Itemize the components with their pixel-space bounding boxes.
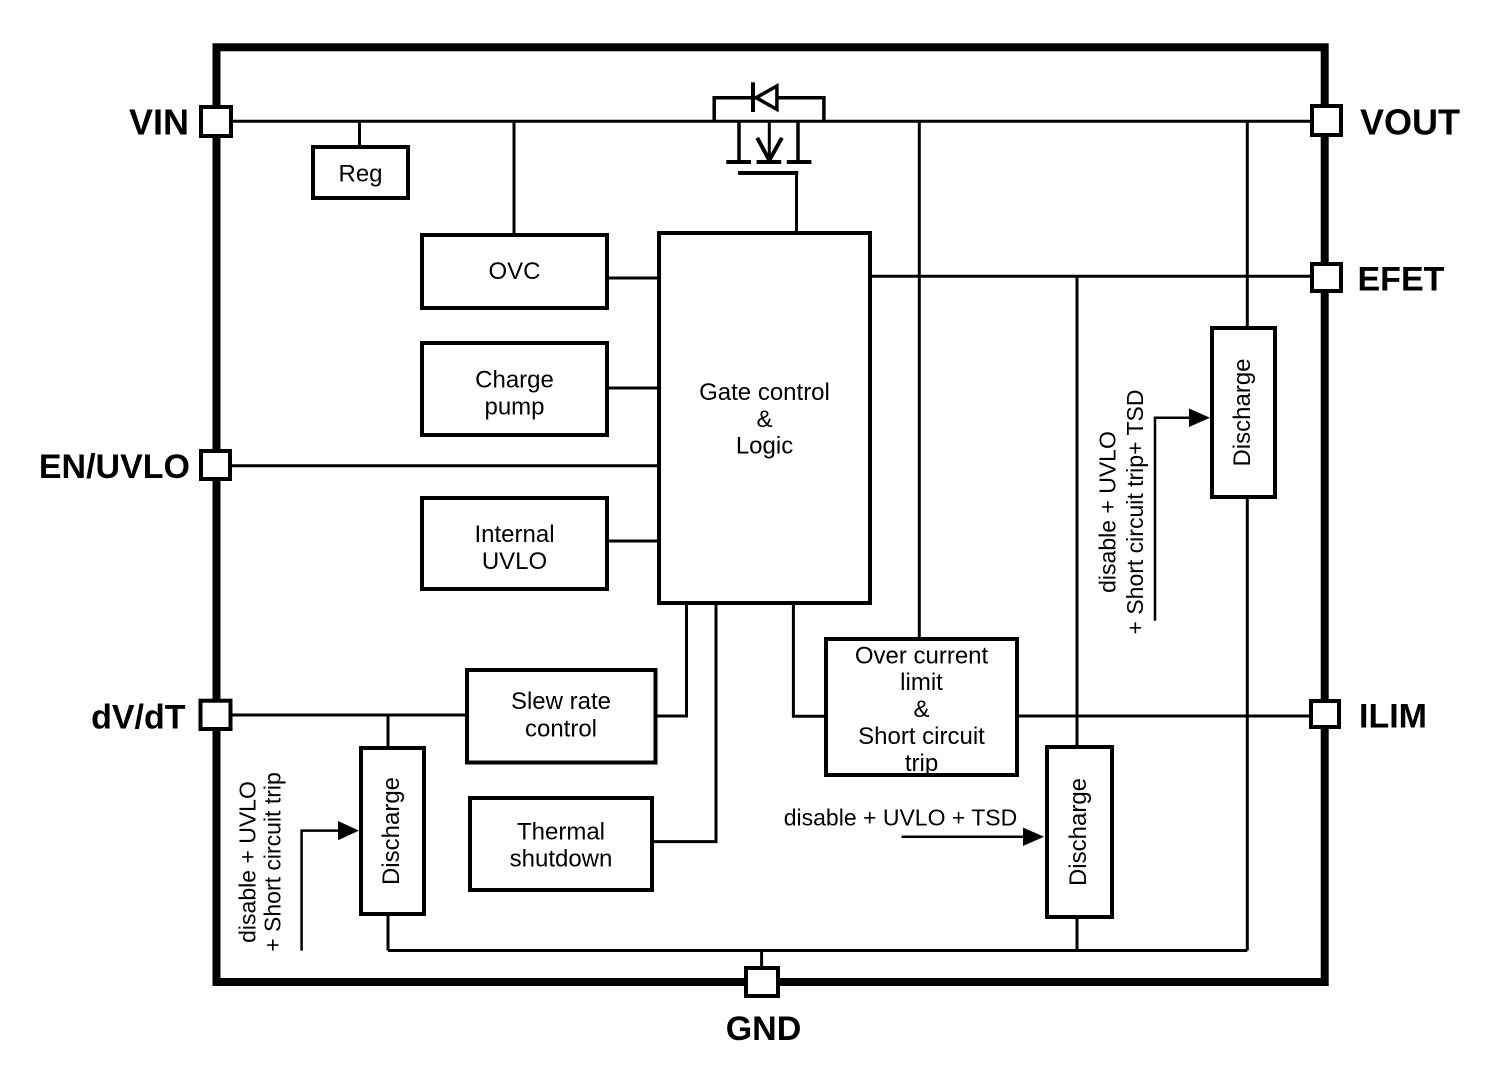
wire dV/dT junction to Discharge dVdT (387, 715, 390, 748)
arrow into Discharge ILIM (902, 828, 1044, 847)
svg-text:VOUT: VOUT (1360, 102, 1460, 143)
transistor Q1 contact bar body (757, 160, 782, 164)
svg-text:shutdown: shutdown (510, 846, 613, 873)
svg-text:&: & (756, 406, 772, 433)
svg-text:EFET: EFET (1358, 261, 1445, 299)
svg-text:Reg: Reg (338, 161, 382, 188)
wire EN/UVLO to Gate control (230, 464, 661, 467)
wire bottom rail (388, 949, 1247, 952)
transistor Q1 body arrow (768, 121, 771, 158)
wire OVC to Gate control (607, 277, 661, 280)
transistor Q1 pass FET body diode bracket (714, 98, 824, 122)
svg-text:disable + UVLO: disable + UVLO (1095, 431, 1121, 593)
svg-text:control: control (525, 716, 597, 743)
block Discharge ILIM (1047, 747, 1112, 917)
wire Charge pump to Gate control (607, 387, 661, 390)
svg-text:Short circuit: Short circuit (858, 723, 985, 750)
svg-text:Logic: Logic (736, 433, 793, 460)
wire Gate control to Over current (793, 603, 826, 716)
pin dV/dT (201, 701, 231, 729)
svg-text:disable + UVLO + TSD: disable + UVLO + TSD (784, 805, 1018, 831)
svg-text:VIN: VIN (129, 102, 189, 143)
svg-text:ILIM: ILIM (1359, 698, 1427, 736)
wire bottom rail to GND pin (760, 951, 763, 969)
wire Internal UVLO to Gate control (607, 540, 661, 543)
transistor Q1 contact bar drain (726, 160, 751, 164)
pin GND (746, 968, 778, 996)
pin EFET (1312, 264, 1341, 291)
svg-text:Slew rate: Slew rate (511, 688, 611, 715)
wire Discharge dVdT to bottom rail (387, 915, 390, 951)
IC boundary box (217, 47, 1325, 982)
block Charge pump (422, 343, 607, 435)
block OVC (422, 235, 607, 308)
wire VIN rail to Discharge EFET (vertical upper) (1246, 121, 1249, 328)
pin EN/UVLO (201, 451, 230, 479)
transistor Q1 contact bar source (787, 160, 812, 164)
pin VIN (201, 107, 231, 136)
block Discharge dVdT (361, 748, 424, 914)
wire VIN rail to OVC (513, 121, 516, 235)
block Gate control and Logic U1 (659, 233, 870, 603)
svg-text:GND: GND (726, 1010, 802, 1048)
block Discharge EFET (1212, 328, 1275, 497)
diode D1 triangle (756, 86, 777, 109)
svg-text:dV/dT: dV/dT (91, 699, 186, 737)
arrow into Discharge EFET (1155, 409, 1210, 621)
block Slew rate control (467, 670, 656, 763)
pin ILIM (1311, 701, 1339, 727)
svg-text:limit: limit (900, 669, 943, 696)
svg-text:Internal: Internal (474, 521, 554, 548)
svg-text:Thermal: Thermal (517, 819, 605, 846)
block Reg (313, 147, 408, 198)
svg-text:&: & (913, 696, 929, 723)
transistor Q1 gate bar (738, 171, 798, 175)
wire Discharge ILIM to bottom rail (1076, 917, 1079, 951)
wire VIN rail to Reg (358, 121, 361, 147)
svg-text:Over current: Over current (855, 642, 989, 669)
arrow into Discharge dVdT (302, 821, 359, 951)
svg-text:disable + UVLO: disable + UVLO (235, 781, 261, 943)
block Internal UVLO (422, 498, 607, 589)
wire dV/dT to Slew rate control (230, 714, 467, 717)
svg-text:Discharge: Discharge (1229, 358, 1256, 466)
svg-text:Gate control: Gate control (699, 379, 830, 406)
transistor Q1 drain lead (737, 121, 741, 160)
wire Discharge EFET to bottom rail (vertical lower) (1246, 497, 1249, 951)
svg-text:Charge: Charge (475, 366, 554, 393)
svg-text:pump: pump (484, 393, 544, 420)
svg-text:OVC: OVC (488, 258, 540, 285)
wire Q1 gate to Gate control (795, 173, 798, 233)
transistor Q1 source lead (796, 121, 800, 160)
pin VOUT (1312, 106, 1341, 135)
block Thermal shutdown (470, 798, 652, 890)
wire Gate control to EFET pin (870, 275, 1312, 278)
wire Thermal shutdown to Gate control (652, 603, 716, 842)
annotation disable + UVLO + Short circuit trip (left) (235, 772, 286, 952)
svg-text:trip: trip (905, 750, 938, 777)
svg-text:+ Short circuit trip+ TSD: + Short circuit trip+ TSD (1122, 390, 1148, 635)
svg-text:Discharge: Discharge (378, 777, 405, 885)
wire EFET line to Discharge ILIM (vertical) (1076, 276, 1079, 747)
svg-text:Discharge: Discharge (1065, 778, 1092, 886)
wire Over current to ILIM pin (1017, 715, 1311, 718)
wire Slew rate control to Gate control (655, 603, 687, 716)
diode D1 cathode bar (751, 82, 755, 112)
svg-text:+ Short circuit trip: + Short circuit trip (260, 772, 286, 952)
wire VIN to VOUT main rail (231, 120, 1312, 123)
block Over current limit and Short circuit trip (826, 639, 1017, 777)
annotation disable + UVLO + Short circuit trip + TSD (right) (1095, 390, 1149, 635)
wire VIN rail to Over current block (vertical) (918, 121, 921, 639)
svg-text:UVLO: UVLO (482, 548, 547, 575)
svg-text:EN/UVLO: EN/UVLO (39, 448, 190, 486)
